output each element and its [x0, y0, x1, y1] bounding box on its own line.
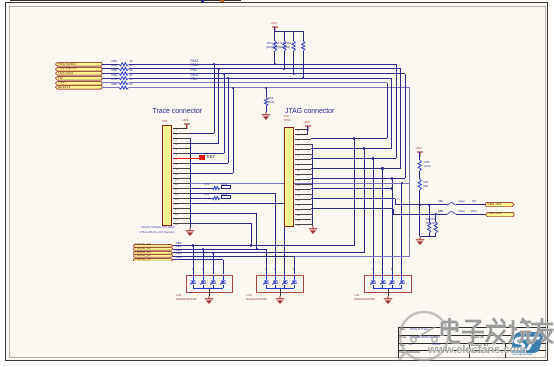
node PE4 — [176, 249, 181, 252]
label U14 — [246, 294, 251, 297]
wire TDI return bracket to CN9 pin5 — [391, 78, 392, 148]
wire RESET# to R80 — [102, 87, 119, 88]
wire bus tap to CN8 pin 2 — [214, 64, 215, 133]
resistor R51 [N/A] CN8 pin15 — [190, 198, 212, 199]
power +3V3 CN9 pin1 — [304, 125, 312, 131]
wire SB5 to DBGACK — [456, 214, 485, 215]
wire SB5 row — [393, 214, 447, 215]
watermark url text — [428, 344, 526, 357]
wire TMS/SWDIO to R55 — [102, 64, 119, 65]
ground U11 — [383, 296, 393, 305]
ESD array U16 — [186, 275, 233, 294]
ground CN8 — [185, 228, 195, 237]
wire U11 common — [373, 288, 401, 289]
wire CN8 pin1 to +3V3 — [173, 127, 187, 130]
wire PA13 (TMS) bus — [129, 64, 397, 65]
wire PE5 row — [173, 249, 266, 250]
wire CN9 ground bus — [312, 145, 313, 227]
wire R33 to R37 — [419, 171, 420, 179]
diode U16 ch1 — [193, 275, 194, 281]
wire CN9 pin15 row to SB4 — [311, 198, 396, 199]
CN8 pin stubs — [173, 132, 191, 135]
wire TDI to R62 — [102, 78, 119, 79]
connector CN8 Trace body — [162, 125, 172, 226]
wire CN8 pin 4 row — [190, 143, 218, 144]
wire CN8 pin 6 row — [190, 153, 224, 154]
node PB3 — [191, 69, 197, 73]
wire R44 to ground — [266, 106, 267, 112]
wire PE6 row — [173, 245, 354, 246]
wire PA15 (TDI) bus — [129, 78, 392, 79]
ESD array U14 — [256, 275, 304, 294]
wire CN8 pin18 bracket to PE5 — [190, 213, 256, 214]
label JTAG ref — [284, 119, 291, 122]
port TRACE_D1 — [133, 251, 173, 255]
wire TDO return bracket to CN9 pin11 — [405, 74, 406, 179]
wire PE4 row — [173, 252, 364, 253]
ground right chain — [415, 237, 425, 246]
diode U11 ch1 — [373, 275, 374, 281]
resistor R50 [N/A] CN8 pin13 — [190, 188, 212, 189]
CN9 pin stubs — [295, 138, 311, 141]
KEY square — [199, 155, 205, 160]
label CN8 part numbers — [141, 226, 175, 229]
label CN9 — [284, 115, 289, 118]
ground CN9 — [308, 226, 318, 235]
wire PE6 to ESD U16 — [193, 246, 194, 275]
node PA15 — [191, 74, 199, 78]
node PA13 — [191, 60, 199, 64]
wire CN8 ground bus — [190, 138, 191, 228]
label U11 — [354, 294, 359, 297]
wire +3V3 to R33 — [419, 152, 420, 161]
wire TDO/SWO to R58 — [102, 73, 119, 74]
wire node to ground rail — [419, 205, 420, 237]
wire pullup R65 top — [284, 31, 285, 41]
wire PE4 to ESD U16 — [213, 253, 214, 275]
port TDO/SWO — [55, 71, 103, 76]
node PB4 — [191, 78, 197, 82]
wire TCK return bracket to CN9 pin9 — [400, 69, 401, 169]
CN9 pin numbers — [296, 128, 301, 228]
title block text — [400, 328, 406, 331]
wire U16 common — [193, 288, 223, 289]
wire PE2 row — [173, 259, 223, 260]
power +3V3 pullups — [271, 26, 279, 32]
diode U16 ch2 — [203, 275, 204, 281]
port TRACE_D3 — [133, 244, 173, 248]
wire PE4 descender — [364, 149, 365, 253]
ESD array U11 — [364, 275, 411, 294]
wire CN9 pin13 row — [311, 188, 393, 189]
wire ground rail — [420, 236, 436, 237]
connector CN9 JTAG body — [284, 127, 294, 228]
wire CN8 pin 2 row — [190, 133, 214, 134]
wire SB4 row — [395, 204, 447, 205]
pullup values — [266, 46, 290, 49]
port TCK/SWCLK — [55, 67, 103, 72]
port TMS/SWDIO — [55, 62, 103, 67]
port TRACE_CK — [133, 258, 173, 262]
wire CN8 pin 10 row — [190, 173, 233, 174]
diode U14 ch4 — [294, 275, 295, 281]
diode U14 ch2 — [275, 275, 276, 281]
wire to ESD U11 ch4 — [401, 183, 402, 275]
wire TRST return bracket to CN9 pin3 — [387, 83, 388, 139]
CN8 pin numbers — [174, 127, 179, 227]
wire CN8 pin 8 row — [190, 163, 228, 164]
power +3V3 CN8 pin1 — [183, 123, 191, 129]
label U16 — [176, 294, 181, 297]
watermark chinese glyph strokes — [437, 316, 463, 346]
node PA14 — [191, 64, 199, 68]
wire bus tap to CN8 pin 6 — [224, 74, 225, 153]
top blue tick — [201, 0, 204, 2]
node PE6 — [176, 242, 181, 245]
wire CN8 pin20 bracket to PE6 — [190, 223, 251, 224]
wire bus tap to CN8 pin 8 — [228, 78, 229, 163]
wire TMS return bracket to CN9 pin7 — [396, 64, 397, 158]
port RESET# — [55, 85, 103, 90]
diode U11 ch2 — [382, 275, 383, 281]
pullup designators — [267, 42, 293, 45]
label life.augmented — [513, 353, 533, 356]
wire PE5 to ESD U16 — [203, 249, 204, 275]
ground U14 — [275, 296, 285, 305]
wire SB4 to DBGIRQ — [456, 204, 485, 205]
wire CN8 pin16 to ESD U14 — [190, 203, 284, 204]
solder bridge SB5 — [447, 211, 456, 215]
wire pullup R64 bottom — [274, 51, 275, 64]
wire pullup R65 bottom — [284, 51, 285, 69]
wire pullup R66 top — [293, 31, 294, 41]
wire R37 to SB4 node — [419, 190, 420, 205]
power +3V3 right — [416, 151, 424, 157]
wire pullup R64 top — [274, 31, 275, 41]
wire TDO net to ESD U11 ch1 — [373, 159, 374, 275]
watermark circle logo — [396, 308, 460, 364]
wire pullup R67 bottom — [303, 51, 304, 78]
diode U16 ch3 — [213, 275, 214, 281]
wire bus tap to CN8 pin 10 — [233, 88, 234, 173]
node PE5 — [176, 245, 181, 248]
port TRST — [55, 81, 103, 86]
solder bridge SB4 — [447, 202, 456, 206]
title block frame — [398, 327, 546, 358]
wire pullup rail — [275, 31, 303, 32]
label JTAG connector — [285, 108, 334, 116]
label KEY — [207, 155, 215, 160]
wire TCK/SWCLK to R56 — [102, 68, 119, 69]
port TDI — [55, 76, 103, 81]
wire PE3 row — [173, 256, 294, 257]
wire RESET to R44 — [266, 88, 267, 98]
resistor R36 50K — [428, 204, 430, 206]
wire to ESD U11 ch3 — [392, 179, 393, 275]
wire PE6 descender — [354, 139, 355, 246]
wire to ESD U11 ch2 — [382, 169, 383, 275]
port TRACE_D2 — [133, 247, 173, 251]
diode U16 ch4 — [223, 275, 224, 281]
label CN8 — [162, 120, 167, 123]
wire PA14 (TCK) bus — [129, 68, 401, 69]
wire pullup R66 bottom — [293, 51, 294, 74]
diode U14 ch1 — [266, 275, 267, 281]
diode U11 ch3 — [392, 275, 393, 281]
top partial crop line — [10, 0, 241, 1]
KEY pin7 wire — [173, 157, 200, 160]
wire light return to PE3 — [294, 256, 410, 257]
wire U14 common — [266, 288, 294, 289]
wire CN9 pin17 row to SB5 — [311, 208, 394, 209]
node PE3 — [176, 252, 181, 255]
node PE2 — [176, 256, 181, 259]
ground U16 — [204, 296, 214, 305]
top orange tick — [220, 0, 224, 2]
resistor R34 50K — [435, 213, 437, 215]
port TRACE_D0 — [133, 254, 173, 258]
wire RESET return bracket light — [409, 88, 410, 257]
wire RESET bus — [129, 87, 410, 88]
wire CN8 pin12 TRACECK long row — [190, 183, 409, 184]
wire CN9 pins1-2 to +3V3 — [295, 128, 308, 131]
ground R44 — [261, 112, 271, 121]
diode U11 ch4 — [401, 275, 402, 281]
port DBGACK — [485, 212, 515, 217]
wire pullup R67 top — [303, 31, 304, 41]
wire TRST to R78 — [102, 82, 119, 83]
label Trace connector — [153, 108, 203, 116]
port DBGIRQ — [485, 202, 515, 207]
wire bus tap to CN8 pin 4 — [218, 69, 219, 143]
wire PB4 (TRST) bus — [129, 82, 388, 83]
wire PB3 (TDO) bus — [129, 73, 406, 74]
wire CN8 pin14 to ESD U14 — [190, 193, 275, 194]
diode U14 ch3 — [284, 275, 285, 281]
ST Microelectronics logo — [512, 331, 545, 354]
